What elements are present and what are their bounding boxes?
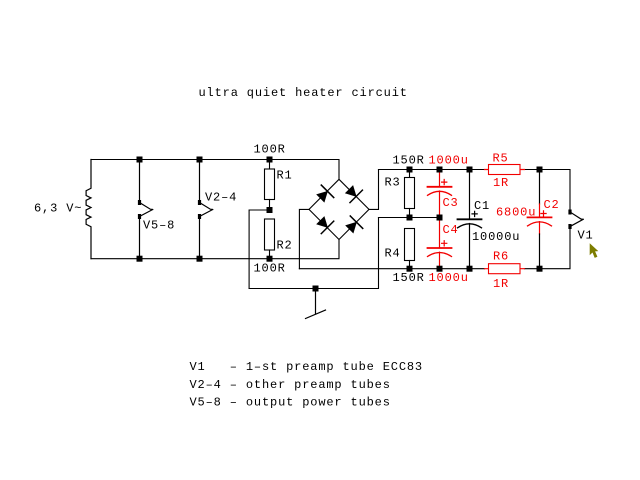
bridge rectifier frame: [309, 179, 369, 239]
tube V1: [568, 210, 593, 243]
svg-text:C2: C2: [544, 198, 560, 212]
node ground junction: [313, 286, 319, 292]
node DC minus rail / R4: [407, 266, 413, 272]
wire ground rail: [249, 218, 378, 289]
wire bottom AC rail: [91, 240, 339, 259]
capacitor C2: [496, 170, 560, 269]
wire R1/R2 midpoint to ground rail: [249, 210, 269, 289]
svg-text:R5: R5: [493, 151, 509, 165]
svg-text:C3: C3: [443, 196, 459, 210]
wire R3/R4 midpoint to C3/C4 midpoint: [379, 217, 440, 219]
mouse cursor: [590, 243, 599, 258]
capacitor C4: [428, 218, 459, 269]
node top rail / R1: [267, 157, 273, 163]
resistor R3: [385, 170, 415, 218]
svg-text:10000u: 10000u: [472, 230, 520, 244]
capacitor C1: [458, 170, 521, 269]
diode D1 top-left: [316, 185, 334, 203]
node bottom rail / V2-4: [197, 256, 203, 262]
svg-text:R1: R1: [277, 169, 293, 183]
svg-text:R6: R6: [493, 249, 509, 263]
svg-text:V5–8: V5–8: [143, 218, 175, 232]
svg-text:1R: 1R: [493, 176, 509, 190]
node R1/R2 midpoint: [267, 207, 273, 213]
transformer winding 6,3V: [86, 160, 91, 259]
node top rail / V2-4: [197, 157, 203, 163]
resistor R6: [485, 249, 525, 291]
svg-text:V2–4 – other preamp tubes: V2–4 – other preamp tubes: [190, 378, 391, 392]
svg-text:1000u: 1000u: [429, 271, 469, 285]
node R3/R4 midpoint: [407, 215, 413, 221]
node top rail / V5-8: [137, 157, 143, 163]
diode D2 top-right: [345, 185, 363, 203]
node DC minus rail / R6 C2: [537, 266, 543, 272]
wire top AC rail: [91, 160, 339, 180]
wire bridge left corner to DC minus rail: [299, 209, 309, 268]
resistor R2: [265, 219, 293, 259]
svg-text:6800u: 6800u: [496, 206, 536, 220]
node DC plus rail / R5 C2: [537, 167, 543, 173]
svg-text:1R: 1R: [493, 277, 509, 291]
svg-text:6,3 V~: 6,3 V~: [34, 202, 82, 216]
node bottom rail / R2: [267, 256, 273, 262]
capacitor C3: [428, 170, 459, 218]
resistor R1: [265, 160, 293, 211]
resistor R5: [485, 151, 525, 190]
node DC plus rail / R3: [407, 167, 413, 173]
svg-text:V2–4: V2–4: [205, 190, 237, 204]
svg-text:V5–8 – output power tubes: V5–8 – output power tubes: [190, 395, 391, 409]
wire DC minus rail: [299, 227, 570, 269]
tube V2-4: [198, 160, 237, 259]
node bottom rail / V5-8: [137, 256, 143, 262]
svg-text:V1: V1: [578, 229, 594, 243]
diode D4 bottom-right: [345, 216, 363, 234]
resistor R4: [385, 229, 415, 269]
diode D3 bottom-left: [316, 216, 334, 234]
svg-text:R4: R4: [385, 246, 401, 260]
svg-text:150R: 150R: [393, 271, 425, 285]
node DC plus rail / C3: [437, 167, 443, 173]
ground symbol: [306, 291, 326, 319]
svg-text:C4: C4: [443, 223, 459, 237]
node DC minus rail / C1: [467, 266, 473, 272]
svg-text:ultra quiet heater circuit: ultra quiet heater circuit: [199, 86, 408, 100]
wire bridge right corner to DC plus rail: [369, 170, 379, 210]
svg-text:V1 – 1–st preamp tube ECC83: V1 – 1–st preamp tube ECC83: [190, 360, 423, 374]
wire DC plus rail: [379, 170, 571, 213]
node C3/C4 midpoint: [437, 215, 443, 221]
svg-text:R2: R2: [277, 238, 293, 252]
node DC minus rail / C4: [437, 266, 443, 272]
node DC plus rail / C1: [467, 167, 473, 173]
tube V5-8: [138, 160, 175, 259]
svg-text:1000u: 1000u: [429, 154, 469, 168]
svg-text:100R: 100R: [254, 143, 286, 157]
svg-text:R3: R3: [385, 176, 401, 190]
svg-text:150R: 150R: [393, 154, 425, 168]
svg-text:C1: C1: [474, 199, 490, 213]
svg-text:100R: 100R: [254, 262, 286, 276]
